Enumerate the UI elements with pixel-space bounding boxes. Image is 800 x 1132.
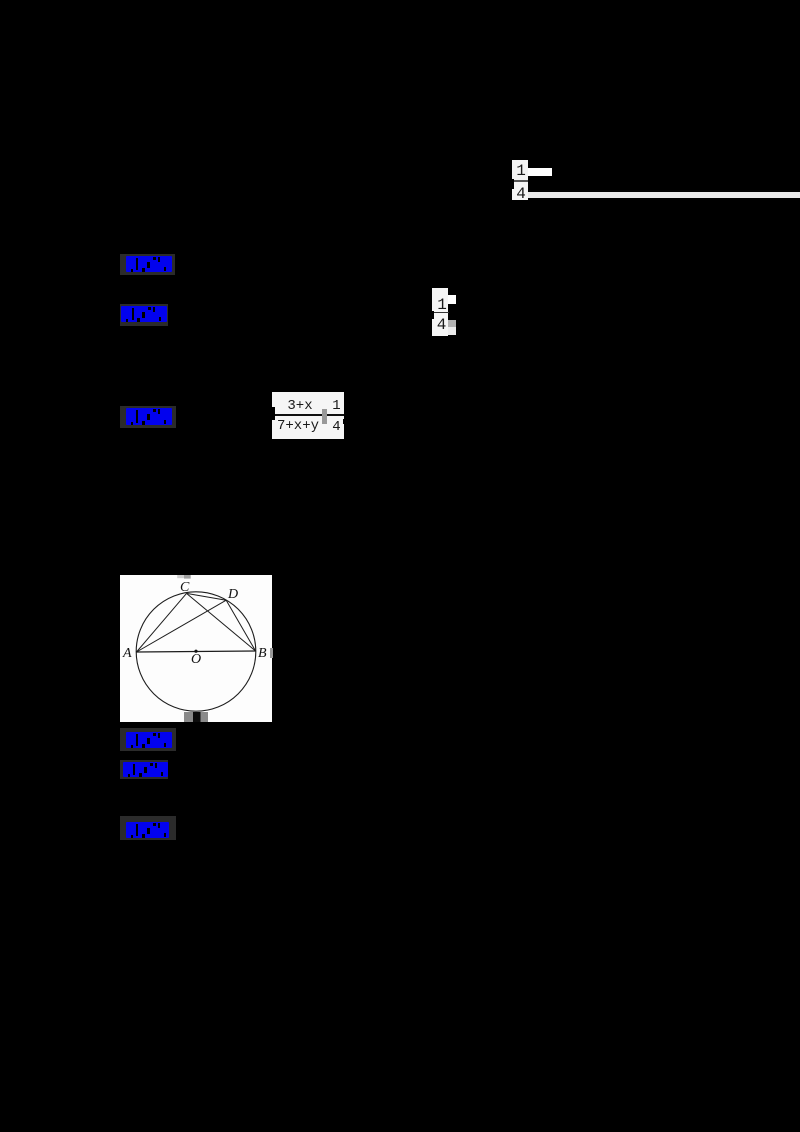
svg-text:C: C: [180, 580, 190, 595]
blue label 5 (fenxi): [123, 762, 169, 777]
black notch on F1 left edge: [512, 179, 514, 189]
white underline bar right of numerator: [528, 168, 552, 177]
long fraction bar: [274, 414, 344, 416]
black notch on F3 right edge: [343, 419, 345, 425]
blue label 2 (fenxi): [121, 306, 167, 322]
line AC: [137, 593, 187, 652]
white patch right of F2 numerator: [448, 295, 456, 304]
circle: [136, 592, 256, 711]
label highlight box 6: [120, 816, 176, 840]
center dot O: [194, 650, 197, 653]
light gray band to page edge: [528, 192, 800, 198]
gray patch right of F2 denominator: [448, 320, 456, 327]
top gray smudge: [184, 575, 191, 579]
label highlight box 5: [120, 760, 168, 779]
line DB: [226, 600, 255, 651]
blue label 4 (kaodian): [126, 732, 173, 749]
label highlight box 4: [120, 728, 176, 751]
fraction bar F2: [432, 312, 449, 314]
bottom gray block: [184, 712, 208, 722]
chord AB (diameter): [137, 651, 256, 652]
formula image F1: fraction 1/4 in problem statement: [512, 160, 528, 200]
svg-text:A: A: [122, 646, 132, 661]
denominator 7+x+y: [275, 419, 321, 433]
line CB: [187, 593, 256, 651]
svg-text:O: O: [191, 652, 201, 667]
label highlight box 1: [120, 254, 175, 275]
fraction bar F1: [512, 180, 528, 182]
label highlight box 3: [120, 406, 176, 428]
line AD: [137, 600, 227, 652]
formula image F3: (3+x)/(7+x+y) = 1/4: [272, 392, 344, 439]
blue label 3 (jieda): [126, 408, 173, 425]
right gray dash beside B: [270, 648, 273, 658]
line CD: [187, 593, 227, 600]
light patch bottom right of F2: [448, 327, 456, 335]
denominator 4 of right fraction: [331, 421, 342, 434]
label highlight box 2: [120, 304, 168, 326]
black notch on F3 left edge: [272, 407, 275, 420]
blue label 6 (jieda): [126, 822, 169, 838]
gray equals block: [322, 409, 328, 425]
black notch on F2 left edge: [431, 311, 434, 320]
svg-text:D: D: [227, 587, 238, 602]
formula image F2: fraction 1/4 in analysis: [432, 288, 448, 336]
diagram image: circle O with points A B C D: [120, 575, 272, 722]
numerator 1 of right fraction: [331, 400, 342, 413]
numerator 3+x: [285, 400, 315, 413]
svg-text:B: B: [258, 646, 267, 661]
bottom black block: [193, 712, 201, 722]
blue label 1 (kaodian): [126, 256, 173, 272]
